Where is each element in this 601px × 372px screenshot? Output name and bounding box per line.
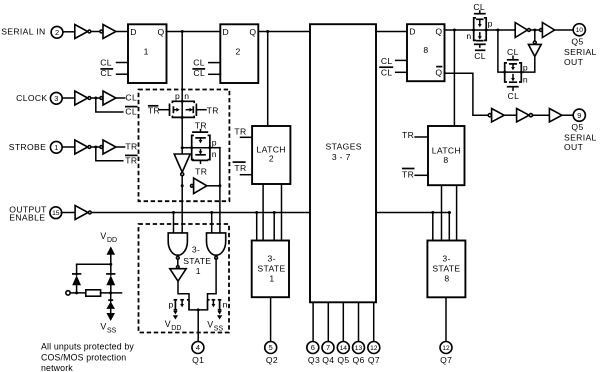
block 3-state 8 [427, 241, 465, 298]
wire OE drop 3state8 B [448, 213, 450, 241]
junction node Q1 internal [181, 30, 184, 33]
svg-text:8: 8 [443, 155, 448, 165]
wire stage6 output [358, 302, 360, 341]
resistor protection [86, 290, 101, 296]
svg-text:14: 14 [340, 345, 348, 352]
pin 5 Q2 [265, 342, 277, 354]
svg-text:8: 8 [423, 45, 428, 55]
node OUTPUT ENABLE label [9, 204, 47, 222]
junction OE to 3state8 B [448, 211, 451, 214]
junction TG-A bottom [181, 116, 184, 119]
wire latch2 output A [262, 184, 264, 241]
power VDD arrow 3state [173, 311, 178, 320]
wire clock junction segment [91, 97, 99, 99]
wire 3state1 output [270, 297, 272, 342]
wire TG1 to buffer [486, 29, 515, 31]
node SERIAL OUT label pin9 [564, 133, 597, 153]
svg-text:Q7: Q7 [440, 355, 452, 365]
svg-text:V: V [207, 320, 213, 330]
svg-text:15: 15 [52, 210, 60, 217]
wire to TR label [116, 146, 125, 148]
terminal input open circle [66, 291, 70, 295]
power VDD arrow protection [107, 246, 116, 264]
svg-text:Q: Q [249, 27, 256, 37]
wire to FF1 D [116, 31, 128, 33]
node SERIAL OUT label pin10 [564, 47, 597, 67]
junction TG-A top [181, 100, 184, 103]
pin 3 CLOCK [50, 92, 62, 104]
transmission gate TG1 [474, 11, 487, 47]
pin 14 Q5 [337, 342, 349, 354]
svg-text:STATE: STATE [257, 263, 285, 273]
block stages 3-7 [310, 24, 376, 302]
junction TG1 right [485, 29, 488, 32]
svg-text:Q2: Q2 [266, 355, 278, 365]
inverter clock A [75, 91, 91, 105]
svg-text:CLOCK: CLOCK [16, 93, 47, 103]
svg-text:3 - 7: 3 - 7 [332, 152, 351, 162]
svg-text:COS/MOS protection: COS/MOS protection [41, 352, 126, 362]
svg-text:Q: Q [158, 27, 165, 37]
svg-text:Q1: Q1 [192, 355, 204, 365]
junction protection vdd [109, 263, 112, 266]
wire clock inverted branch [96, 98, 123, 112]
wire TG-A center vertical [181, 101, 183, 117]
svg-text:Q4: Q4 [322, 355, 334, 365]
svg-text:CL: CL [474, 51, 486, 61]
svg-text:3: 3 [54, 94, 58, 103]
transmission gate TG2 [505, 56, 522, 90]
wire TG-B through [192, 147, 210, 149]
svg-text:CL: CL [508, 91, 520, 101]
svg-text:9: 9 [577, 111, 581, 120]
svg-text:CL: CL [193, 58, 205, 68]
node CL-bar label TG1 bottom [474, 50, 486, 61]
node 3-STATE 1 inner label [183, 244, 211, 276]
svg-text:TR: TR [207, 105, 219, 115]
svg-text:TR: TR [402, 169, 414, 179]
power VSS arrow 3state [217, 311, 222, 320]
pin 6 Q3 [307, 342, 319, 354]
svg-text:CL: CL [125, 93, 137, 103]
wire pin2 to inverter [63, 31, 75, 33]
svg-text:Q5: Q5 [571, 122, 583, 132]
wire 3state8 output [445, 297, 447, 341]
wire stage3 output [312, 302, 314, 341]
wire FF8 CL stub [396, 59, 407, 61]
svg-text:OUT: OUT [564, 57, 584, 67]
svg-text:Q: Q [435, 68, 442, 78]
wire OE drop to nand2 [211, 213, 213, 233]
svg-text:TR: TR [234, 163, 246, 173]
junction node Q2 internal [266, 30, 269, 33]
wire stages to FF8 D [376, 31, 407, 33]
junction Q8 node [453, 29, 456, 32]
buffer serial-out B [540, 23, 555, 38]
wire FF8 CL-bar stub [396, 71, 407, 73]
node VSS label protection [100, 321, 116, 334]
wire stage5 output [342, 302, 344, 341]
wire p-driver to pfet [178, 281, 189, 300]
inverter serial feedback [528, 41, 541, 56]
svg-text:n: n [223, 299, 228, 309]
wire fet common node [189, 309, 208, 311]
wire FF2 Q to stages [258, 31, 310, 33]
svg-text:TR: TR [125, 156, 137, 166]
svg-text:2: 2 [55, 28, 59, 37]
wire strobe junction segment [91, 146, 99, 148]
wire buffer gap [532, 29, 539, 31]
svg-text:3-: 3- [268, 253, 276, 263]
wire FF2 CL-bar stub [209, 73, 221, 75]
svg-text:CL: CL [100, 58, 112, 68]
node TR-bar label latch2 [233, 162, 247, 173]
node CL-bar label FF2 [192, 68, 205, 78]
wire OE drop 3state8 A [432, 213, 434, 241]
svg-text:CL: CL [193, 68, 205, 78]
svg-text:STATE: STATE [183, 256, 211, 266]
node TR-bar label TG-A left [148, 105, 160, 115]
latch U-latch2 [252, 126, 290, 184]
junction TG2 left [503, 71, 506, 74]
junction output Q1 node [197, 308, 200, 311]
junction TG-B tap [181, 146, 184, 149]
svg-text:D: D [223, 27, 230, 37]
svg-text:n: n [184, 91, 189, 101]
junction TG-B left [190, 146, 193, 149]
nand gate 3state n [207, 233, 226, 259]
junction inverter tap [533, 29, 536, 32]
wire FF8 Qbar out [445, 73, 489, 115]
pin 9 Q5 serial out [573, 109, 585, 121]
svg-text:p: p [175, 91, 180, 101]
svg-text:10: 10 [576, 27, 584, 34]
wire left diode drop [76, 264, 78, 275]
junction protection right [109, 291, 112, 294]
pin 12 Q7 stage [368, 342, 380, 354]
svg-text:V: V [100, 321, 106, 331]
junction OE nand1 [172, 211, 175, 214]
svg-text:LATCH: LATCH [432, 146, 461, 156]
inverter strobe A [75, 140, 91, 154]
junction OE to 3state1 B [273, 211, 276, 214]
wire pin1 to inverter [62, 146, 75, 148]
svg-text:p: p [523, 63, 528, 73]
wire pin3 to inverter [62, 97, 75, 99]
pin 13 Q6 [353, 342, 365, 354]
wire TG-A lead to TR right [196, 109, 206, 111]
wire TG2 through [505, 71, 522, 73]
junction TG2 right [520, 71, 523, 74]
svg-text:TR: TR [148, 105, 160, 115]
pin 15 OUTPUT ENABLE [50, 207, 62, 219]
wire FF1 Q to FF2 D [167, 31, 221, 33]
wire inverter to buffer node [181, 176, 183, 186]
svg-text:6: 6 [311, 343, 315, 352]
pin 4 Q1 [192, 342, 204, 354]
wire Q1 output stem [197, 310, 199, 342]
svg-text:Q7: Q7 [368, 355, 380, 365]
pin 7 Q4 [322, 342, 334, 354]
transmission gate TG-A [170, 101, 197, 117]
svg-text:STATE: STATE [432, 263, 460, 273]
latch U-latch8 [428, 126, 465, 185]
junction serial-out node [496, 29, 499, 32]
svg-text:1: 1 [196, 266, 201, 276]
wire nand1 to inverter [177, 259, 179, 265]
svg-text:TR: TR [234, 127, 246, 137]
svg-text:p: p [488, 19, 493, 29]
svg-text:3-: 3- [192, 244, 200, 254]
pin 10 Q5 serial out [573, 24, 585, 36]
svg-text:13: 13 [355, 345, 363, 352]
svg-text:1: 1 [54, 143, 58, 152]
svg-text:1: 1 [269, 273, 274, 283]
wire Q8 down to latch8 [453, 30, 455, 126]
wire FF2 CL stub [209, 62, 221, 64]
wire between serial buffers [91, 31, 99, 33]
wire Q2 down to latch2 [267, 32, 269, 127]
wire to pin10 [555, 29, 573, 31]
inverter 3state p-driver [170, 266, 186, 282]
svg-text:8: 8 [444, 273, 449, 283]
junction TG1 left [472, 29, 475, 32]
note protection text [41, 342, 134, 372]
inverter qbar chain B [517, 109, 533, 122]
buffer stage1 feedback [191, 178, 207, 194]
flip-flop stage 1 [128, 24, 167, 83]
svg-text:Q3: Q3 [308, 355, 320, 365]
svg-text:12: 12 [370, 345, 378, 352]
svg-text:SS: SS [214, 325, 224, 332]
svg-text:n: n [212, 149, 217, 159]
wire feedback vertical [219, 148, 221, 233]
svg-text:7: 7 [326, 343, 330, 352]
svg-text:OUT: OUT [564, 142, 584, 152]
wire protection top rail [77, 263, 111, 265]
svg-text:V: V [165, 319, 171, 329]
wire terminal to resistor [70, 292, 86, 294]
node VSS label 3state [207, 320, 223, 333]
junction TG-B right [208, 146, 211, 149]
svg-text:TR: TR [195, 166, 207, 176]
inverter serial-in A [75, 25, 91, 39]
node TR-bar label [125, 155, 138, 165]
wire main vertical down to 3-state [181, 186, 183, 233]
wire Q1 down to transmission gates [181, 32, 183, 102]
wire latch2 output B [281, 184, 283, 241]
dashed box 3-state detail [139, 224, 230, 333]
wire OE drop 3state1 A [256, 213, 258, 241]
wire to CL label [116, 97, 125, 99]
svg-text:V: V [100, 231, 106, 241]
svg-text:D: D [409, 27, 416, 37]
svg-text:n: n [466, 31, 471, 41]
junction OE nand2 [210, 211, 213, 214]
svg-text:Q: Q [435, 27, 442, 37]
svg-text:network: network [41, 363, 73, 372]
svg-text:2: 2 [269, 154, 274, 164]
node CL-bar label [125, 107, 138, 117]
pin 12 Q7 output [440, 342, 452, 354]
svg-text:12: 12 [442, 345, 450, 352]
junction clock branch [94, 97, 97, 100]
wire nand2 to nfet [208, 259, 217, 299]
inverter stage1 internal [174, 154, 190, 176]
svg-text:TR: TR [125, 142, 137, 152]
wire latch8 TR stub [415, 136, 428, 138]
buffer qbar chain C [549, 109, 562, 122]
svg-text:p: p [169, 299, 174, 309]
wire qbar chain AB [504, 114, 516, 116]
wire qbar chain BC [533, 114, 550, 116]
wire TG-B right to feedback vertical [210, 147, 220, 149]
svg-text:n: n [523, 75, 528, 85]
buffer serial-out A [515, 23, 530, 38]
block 3-state 1 [252, 241, 289, 298]
wire stage7 output [373, 302, 375, 341]
flip-flop stage 8 [407, 24, 445, 81]
wire output-enable bus right [376, 212, 450, 214]
junction strobe branch [94, 146, 97, 149]
svg-text:ENABLE: ENABLE [9, 213, 45, 223]
wire resistor to right node [101, 292, 122, 294]
power VSS arrow protection [106, 309, 115, 321]
svg-text:DD: DD [171, 325, 181, 332]
wire FF1 CL stub [117, 62, 129, 64]
svg-text:STAGES: STAGES [326, 141, 362, 151]
wire latch8 output B [456, 185, 458, 240]
wire FF1 CL-bar stub [117, 73, 129, 75]
wire TG1 through [474, 29, 487, 31]
wire stage4 output [327, 302, 329, 341]
wire output-enable bus left [92, 212, 310, 214]
node CL-bar label FF1 [100, 68, 113, 78]
svg-text:CL: CL [125, 107, 137, 117]
svg-text:p: p [212, 138, 217, 148]
junction protection input [75, 291, 78, 294]
diode protection right upper [106, 274, 115, 293]
inverter serial-in B [100, 25, 116, 39]
svg-text:SERIAL: SERIAL [564, 133, 597, 143]
svg-text:4: 4 [196, 343, 200, 352]
wire FF8 Q to TG1 [445, 29, 475, 31]
wire right diode drop [110, 264, 112, 275]
svg-text:2: 2 [236, 47, 241, 57]
wire buffer out [207, 185, 220, 187]
svg-text:DD: DD [107, 237, 117, 244]
svg-text:SERIAL: SERIAL [564, 47, 597, 57]
wire latch8 TR-bar stub [415, 174, 428, 176]
node CL-bar label FF8 [379, 67, 393, 78]
wire latch2 TR stub [241, 136, 253, 138]
wire main vertical to inverter [181, 117, 183, 154]
svg-text:TR: TR [402, 130, 414, 140]
transistor output nfet [208, 299, 228, 310]
junction buffer out [218, 184, 221, 187]
svg-text:5: 5 [269, 343, 273, 352]
junction OE to 3state1 A [255, 211, 258, 214]
wire inverter top tap [534, 30, 536, 41]
svg-text:CL: CL [100, 68, 112, 78]
wire strobe inverted branch [96, 147, 123, 161]
svg-text:Q5: Q5 [337, 355, 349, 365]
svg-text:STROBE: STROBE [9, 142, 46, 152]
svg-text:1: 1 [144, 47, 149, 57]
inverter strobe B [100, 140, 116, 154]
node VDD label 3state [165, 319, 182, 332]
svg-text:3-: 3- [442, 253, 450, 263]
flip-flop stage 2 [220, 24, 258, 83]
inverter qbar chain A [488, 109, 504, 122]
pin 1 STROBE [50, 141, 62, 153]
wire to pin9 [562, 114, 573, 116]
svg-text:CL: CL [381, 68, 393, 78]
wire pin15 to inverter [61, 212, 75, 214]
transmission gate TG-B [192, 130, 210, 164]
wire OE drop 3state1 B [273, 213, 275, 241]
inverter clock B [100, 91, 116, 105]
svg-text:Q5: Q5 [571, 37, 583, 47]
dashed box stage detail [139, 90, 230, 202]
node TR-bar label latch8 [402, 169, 415, 180]
junction buffer node [181, 184, 184, 187]
pin 2 SERIAL IN [51, 26, 63, 38]
node VDD label protection [100, 231, 117, 244]
junction OE to 3state8 A [431, 211, 434, 214]
wire OE drop to nand1 [173, 213, 175, 233]
wire serial node down [498, 30, 505, 72]
diode protection left [72, 274, 81, 293]
wire tap to TG-B [182, 147, 192, 149]
transistor output pfet [169, 299, 189, 310]
svg-text:CL: CL [381, 56, 393, 66]
diode protection lower [106, 293, 115, 309]
inverter output-enable [75, 206, 91, 220]
svg-text:All unputs protected by: All unputs protected by [41, 342, 134, 352]
svg-text:SERIAL IN: SERIAL IN [1, 27, 45, 37]
wire TR-bar lead to TG-A [159, 109, 170, 111]
svg-text:D: D [130, 27, 137, 37]
wire latch8 output A [441, 185, 443, 240]
svg-text:SS: SS [107, 327, 117, 334]
svg-text:Q6: Q6 [353, 355, 365, 365]
nand gate 3state p [168, 233, 187, 259]
wire latch2 TR-bar stub [241, 174, 253, 176]
wire inverter out to TG2 [521, 57, 535, 73]
